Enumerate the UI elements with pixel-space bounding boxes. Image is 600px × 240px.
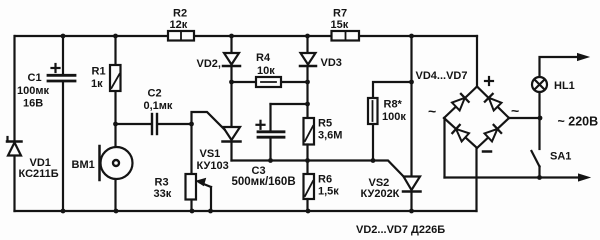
- svg-text:HL1: HL1: [554, 80, 575, 92]
- svg-text:VD3: VD3: [321, 57, 342, 69]
- wire mains neutral: [445, 176, 584, 178]
- capacitor C2: [116, 114, 192, 134]
- minus mark bridge: [483, 150, 491, 153]
- svg-text:1к: 1к: [91, 78, 103, 90]
- svg-text:16В: 16В: [23, 98, 43, 110]
- svg-text:100мк: 100мк: [17, 85, 49, 97]
- wire bridge top: [476, 36, 478, 87]
- switch SA1: [532, 151, 540, 178]
- svg-text:R3: R3: [155, 177, 169, 189]
- lamp HL1: [532, 77, 547, 149]
- svg-text:3,6М: 3,6М: [318, 130, 342, 142]
- wire mains line arrow: [540, 57, 583, 77]
- resistor R8: [368, 82, 412, 161]
- svg-text:SA1: SA1: [550, 151, 571, 163]
- capacitor C3: [257, 104, 308, 161]
- zener diode VD1: [7, 137, 22, 156]
- wire left rail: [13, 36, 15, 211]
- svg-text:R8*: R8*: [384, 99, 403, 111]
- svg-text:C1: C1: [28, 72, 42, 84]
- capacitor C1: [48, 36, 75, 211]
- thyristor VS1: [192, 112, 241, 161]
- svg-text:R7: R7: [333, 8, 347, 20]
- wire bridge left down: [443, 118, 445, 178]
- microphone BM1: [100, 124, 133, 211]
- svg-text:33к: 33к: [154, 188, 172, 200]
- diode bridge VD4..VD7: [444, 87, 509, 149]
- diode VD2: [223, 36, 240, 127]
- svg-text:R2: R2: [173, 8, 187, 20]
- svg-text:R5: R5: [318, 118, 332, 130]
- resistor R5: [304, 118, 315, 174]
- svg-text:~ 220В: ~ 220В: [558, 115, 599, 129]
- wire bridge bottom down: [475, 148, 477, 211]
- svg-text:~: ~: [511, 103, 519, 119]
- wire bridge right: [509, 117, 540, 119]
- resistor R3: [186, 124, 212, 211]
- svg-text:КУ202К: КУ202К: [361, 188, 400, 200]
- svg-text:0,1мк: 0,1мк: [144, 100, 173, 112]
- thyristor VS2: [403, 36, 421, 211]
- svg-text:ВМ1: ВМ1: [72, 159, 95, 171]
- svg-text:R4: R4: [256, 52, 271, 64]
- svg-text:15к: 15к: [331, 19, 349, 31]
- svg-text:100к: 100к: [382, 111, 406, 123]
- svg-text:КУ103: КУ103: [197, 160, 229, 172]
- resistor R2: [168, 31, 194, 41]
- resistor R1: [110, 36, 121, 124]
- svg-text:~: ~: [428, 103, 436, 119]
- svg-text:1,5к: 1,5к: [318, 186, 339, 198]
- svg-text:VD2,: VD2,: [197, 58, 221, 70]
- resistor R7: [332, 31, 360, 41]
- svg-text:10к: 10к: [257, 65, 275, 77]
- plus mark bridge: [485, 77, 493, 85]
- wire bottom rail: [15, 210, 477, 212]
- svg-text:VD2...VD7 Д226Б: VD2...VD7 Д226Б: [356, 224, 445, 236]
- resistor R4: [232, 77, 308, 87]
- resistor R6: [304, 174, 315, 211]
- svg-text:R1: R1: [92, 66, 106, 78]
- svg-text:VD4...VD7: VD4...VD7: [416, 70, 468, 82]
- svg-text:12к: 12к: [170, 19, 188, 31]
- wire gate bus: [232, 161, 405, 178]
- wire top rail: [15, 35, 477, 37]
- svg-text:VS1: VS1: [200, 148, 221, 160]
- svg-text:КС211Б: КС211Б: [19, 168, 59, 180]
- svg-text:C2: C2: [148, 88, 162, 100]
- svg-text:500мк/160В: 500мк/160В: [232, 176, 296, 188]
- svg-text:R6: R6: [318, 174, 332, 186]
- diode VD3: [300, 36, 316, 118]
